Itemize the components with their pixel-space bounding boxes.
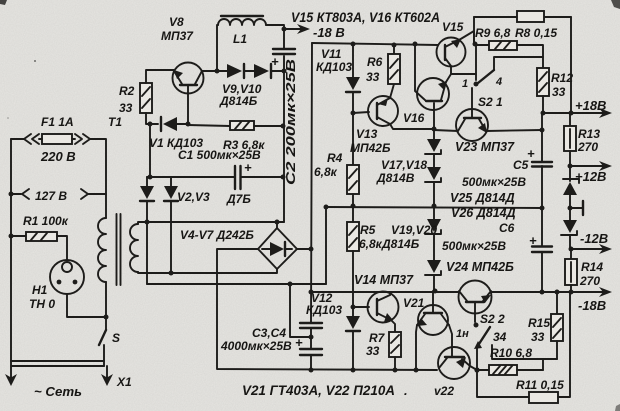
svg-text:+: + <box>529 233 537 248</box>
svg-text:L1: L1 <box>233 32 247 46</box>
svg-text:МП42Б: МП42Б <box>350 141 391 155</box>
capacitor C3 <box>300 322 322 324</box>
connector arrow < <box>22 189 29 199</box>
node: C1 right junction <box>281 175 286 180</box>
svg-text:С6: С6 <box>499 221 515 235</box>
wire: top wire y=17 <box>474 16 571 18</box>
svg-text:220 В: 220 В <box>40 149 76 164</box>
svg-text:R8 0,15: R8 0,15 <box>515 26 557 40</box>
svg-text:33: 33 <box>366 70 380 84</box>
node: rail/R9 junction <box>473 42 478 47</box>
svg-text:R6: R6 <box>367 55 383 69</box>
wire: right rail from top wire <box>570 17 572 113</box>
wire: contact 3 to R15 bottom <box>492 345 557 359</box>
wire: V14 collector to -18 wire <box>390 292 391 295</box>
svg-text:С5: С5 <box>513 158 529 172</box>
capacitor C5 <box>540 128 545 133</box>
wire: V2 rail bottom run <box>147 283 326 285</box>
transistor V14 MP37 <box>368 292 399 323</box>
zener V20 <box>427 260 441 273</box>
wire: bridge right vertex to raw rail <box>297 248 311 250</box>
svg-text:R4: R4 <box>327 151 343 165</box>
svg-text:-18 В: -18 В <box>313 25 345 40</box>
svg-text:R15: R15 <box>528 316 550 330</box>
svg-text:R9 6,8: R9 6,8 <box>475 26 511 40</box>
lamp H1 TN (neon) <box>50 260 84 294</box>
svg-text:R7: R7 <box>369 331 386 345</box>
switch S2.2 <box>474 323 479 328</box>
resistor R15 33 <box>556 292 558 314</box>
zener V18 <box>427 167 441 180</box>
svg-text:v22: v22 <box>434 384 454 398</box>
capacitor C1 500mk <box>234 166 236 189</box>
connector arrows (right of F1) <box>75 134 90 144</box>
svg-text:500мк×25В: 500мк×25В <box>442 239 506 253</box>
svg-text:R10 6,8: R10 6,8 <box>490 346 532 360</box>
svg-text:Х1: Х1 <box>116 375 132 389</box>
resistor R1 100k <box>11 235 26 237</box>
svg-text:F1 1А: F1 1А <box>41 115 74 129</box>
zener V17 <box>433 130 435 139</box>
transformer primary winding <box>98 218 106 282</box>
svg-text:V17,V18: V17,V18 <box>381 158 427 172</box>
node: C3/C4 midpoint <box>309 335 314 340</box>
wire: V23 collector to zener rail <box>434 130 458 131</box>
fuse F1 <box>42 134 72 144</box>
switch S <box>105 282 107 330</box>
resistor R4 6.8k <box>347 165 359 194</box>
diode V10 <box>254 64 269 78</box>
zener V19 <box>427 219 441 232</box>
wire: R11 to -18V node <box>558 294 570 397</box>
wire: V13 emitter to R6 <box>390 84 394 98</box>
svg-text:V15: V15 <box>442 20 464 34</box>
transistor V22 P210A <box>438 347 470 379</box>
wire: R3 to C2 rail <box>254 125 283 127</box>
resistor R2 33 <box>140 83 152 113</box>
svg-text:V4-V7 Д242Б: V4-V7 Д242Б <box>180 228 254 242</box>
wire: bottom double mains wires <box>12 360 104 362</box>
svg-text:V21 ГТ403А, V22 П210А: V21 ГТ403А, V22 П210А <box>242 383 395 398</box>
wire: mid reference wire y=206 <box>326 207 542 208</box>
svg-text:ТН 0: ТН 0 <box>29 297 55 311</box>
svg-text:R5: R5 <box>360 223 376 237</box>
wire: secondary top to bridge <box>138 222 284 224</box>
diode V12 KD103 <box>346 316 360 329</box>
svg-text:V8: V8 <box>169 15 184 29</box>
svg-text:V25 Д814Д: V25 Д814Д <box>450 191 515 205</box>
svg-text:Д7Б: Д7Б <box>226 192 251 206</box>
node: L1 left leg <box>215 69 220 74</box>
output arrow -18V (top) <box>284 28 303 30</box>
wire: V8 base to R3 <box>188 125 230 126</box>
wire: left rail <box>10 139 12 361</box>
svg-text:270: 270 <box>579 274 600 288</box>
node: +12V <box>568 164 573 169</box>
wire: +18V bus <box>543 112 604 114</box>
node: V16/V17/V23 junction <box>432 127 437 132</box>
wire: V23 emitter to C5 rail <box>486 130 542 131</box>
wire: short rail x=326 <box>325 207 327 284</box>
transistor V8 MP37 <box>173 63 204 94</box>
wire: fuse to transformer <box>90 139 106 218</box>
inductor L1 <box>221 15 263 17</box>
svg-text:4000мк×25В: 4000мк×25В <box>220 339 292 353</box>
svg-text:Д814Б: Д814Б <box>219 94 258 108</box>
wire: bridge left vertex to bottom bus <box>217 249 437 370</box>
svg-text:Д814Б: Д814Б <box>381 237 420 251</box>
svg-text:S: S <box>112 331 120 345</box>
wire: V21 collector to V22 <box>449 325 452 356</box>
wire: lamp bottom to primary rail <box>67 294 106 317</box>
connector arrow > <box>81 189 88 199</box>
diode V2 <box>146 177 148 186</box>
svg-text:1: 1 <box>462 78 468 90</box>
svg-text:+: + <box>271 54 279 69</box>
wire: top horizontal bus y=44 <box>312 43 438 45</box>
svg-text:МП37: МП37 <box>161 29 194 43</box>
resistor R14 270 <box>570 249 572 259</box>
node: V2 top rail crossing <box>145 220 150 225</box>
switch S2.1 <box>475 44 477 80</box>
output arrow -12V <box>571 248 604 250</box>
svg-text:R1 100к: R1 100к <box>23 214 69 228</box>
wire: V15 collector down <box>451 66 476 74</box>
svg-text:-12В: -12В <box>580 231 608 246</box>
node: R3/C2 rail <box>281 124 286 129</box>
node: V22 collector junction <box>474 367 479 372</box>
node: -12V <box>569 247 574 252</box>
svg-text:V23 МП37: V23 МП37 <box>455 140 515 154</box>
resistor R7 33 <box>389 332 401 357</box>
wire: R9 to R12 <box>517 45 543 68</box>
resistor R13 270 <box>569 113 571 126</box>
wire: V16 emitter up to V15 <box>446 74 451 82</box>
wire: fuse top wire <box>11 138 24 140</box>
svg-text:С2 200мк×25В: С2 200мк×25В <box>283 59 298 185</box>
capacitor C4 <box>300 348 322 350</box>
node: R1 on left rail <box>9 234 14 239</box>
svg-text:1н: 1н <box>456 328 469 340</box>
svg-text:34: 34 <box>493 330 507 344</box>
transformer secondary winding <box>130 224 138 272</box>
svg-text:V21: V21 <box>403 296 425 310</box>
diode V11 KD103 <box>351 42 356 47</box>
transistor V15 KT803A <box>437 38 466 67</box>
wire: R4 bottom to mid wire <box>352 194 354 206</box>
svg-text:R11 0,15: R11 0,15 <box>516 378 564 392</box>
transistor V16 KT602A <box>417 78 449 110</box>
node: raw rail / bridge <box>309 247 314 252</box>
svg-text:Т1: Т1 <box>108 115 122 129</box>
output arrow +12V <box>570 165 604 167</box>
transformer core <box>116 214 118 285</box>
node: 127V tap on left rail <box>9 192 14 197</box>
terminal X1 arrows <box>10 361 12 378</box>
svg-text:33: 33 <box>366 344 380 358</box>
diode V1 KD103 <box>163 117 177 131</box>
wire: V1 junction down to C1 <box>149 124 151 177</box>
wire: V16 base drop <box>413 42 418 47</box>
svg-text:33: 33 <box>119 101 133 115</box>
transistor V21 GT403A <box>418 305 448 335</box>
node: V11 bottom / V13 base <box>351 111 356 116</box>
node: lamp/primary junction <box>104 315 109 320</box>
svg-text:V2,V3: V2,V3 <box>177 190 210 204</box>
svg-text:Н1: Н1 <box>32 283 48 297</box>
svg-text:V15 КТ803А, V16 КТ602А: V15 КТ803А, V16 КТ602А <box>291 10 440 25</box>
wire: V15 emitter to top wire <box>459 31 474 44</box>
svg-text:6,8к: 6,8к <box>314 165 338 179</box>
svg-text:127 В: 127 В <box>35 189 67 203</box>
diode V9 <box>227 64 242 78</box>
node: bridge top vertex on AC wire <box>275 220 280 225</box>
svg-text:R13: R13 <box>578 127 600 141</box>
wire: C1 wire <box>147 176 234 178</box>
svg-text:С1 500мк×25В: С1 500мк×25В <box>178 148 261 162</box>
wire: 127V tap to primary <box>88 193 106 195</box>
svg-text:33: 33 <box>552 85 566 99</box>
wire: V14 emitter to R7 <box>391 320 395 332</box>
svg-text:V26 Д814Д: V26 Д814Д <box>451 206 516 220</box>
node: 0V midpoint <box>568 206 573 211</box>
zener V25 D814D <box>569 166 571 181</box>
node: R2/V1/C1 junction <box>148 122 153 127</box>
wire: R5 bottom to V14 base <box>352 251 354 316</box>
svg-text:КД103: КД103 <box>306 303 342 317</box>
svg-text:С3,С4: С3,С4 <box>252 326 286 340</box>
wire: C2 rail <box>283 56 285 222</box>
svg-text:+: + <box>295 335 303 350</box>
resistor R5 6.8k <box>347 222 359 251</box>
svg-text:R14: R14 <box>581 260 603 274</box>
svg-text:V14 МП37: V14 МП37 <box>354 273 414 287</box>
scan corner marks <box>0 0 7 5</box>
wire: main raw negative rail x=311 <box>311 43 312 322</box>
svg-text:V19,V20: V19,V20 <box>391 223 437 237</box>
svg-text:V13: V13 <box>356 127 378 141</box>
wire: 127V tap stub left <box>11 193 21 195</box>
wire: V22 collector down to R11 <box>477 370 529 397</box>
svg-text:4: 4 <box>495 76 502 88</box>
svg-text:S2 1: S2 1 <box>478 95 503 109</box>
svg-text:.: . <box>404 383 408 398</box>
svg-text:-18В: -18В <box>578 298 606 313</box>
resistor R11 0.15 <box>529 392 558 403</box>
svg-text:V24 МП42Б: V24 МП42Б <box>446 260 514 274</box>
svg-text:R2: R2 <box>119 84 135 98</box>
capacitor C6 <box>532 245 552 247</box>
node: V8 base <box>186 122 191 127</box>
node: C3/C4 midpoint branch <box>288 282 293 287</box>
resistor R10 6.8 <box>477 369 489 371</box>
node: C2 rail top <box>282 69 287 74</box>
wire: V8 collector to L1 junction <box>202 70 227 72</box>
resistor R12 33 <box>537 68 549 96</box>
resistor R3 6.8k <box>230 121 254 130</box>
wire: R2 top to V8 emitter <box>146 70 174 83</box>
zener V26 D814D <box>563 220 577 233</box>
resistor R8 0.15 <box>517 11 544 22</box>
wire: V13 collector to R4 rail <box>390 124 434 129</box>
svg-text:S2 2: S2 2 <box>480 312 505 326</box>
diode V3 <box>170 177 172 186</box>
svg-text:+18В: +18В <box>575 98 606 113</box>
svg-text:R12: R12 <box>551 71 573 85</box>
svg-text:270: 270 <box>577 140 598 154</box>
capacitor C2 (plates) <box>273 48 295 50</box>
transistor V23 MP37 <box>456 109 488 141</box>
resistor R9 6.8 <box>476 44 489 46</box>
connector arrows (left of F1) <box>24 134 39 144</box>
node: zener midpoint on y=206 wire <box>432 204 437 209</box>
svg-text:+: + <box>244 160 252 175</box>
svg-text:~ Сеть: ~ Сеть <box>34 385 82 399</box>
wire: R1 to lamp <box>57 236 67 260</box>
svg-text:Д814В: Д814В <box>376 171 415 185</box>
wire: V21 emitter to bus <box>416 325 417 370</box>
wire: -18V bus <box>311 291 459 293</box>
svg-text:500мк×25В: 500мк×25В <box>462 175 526 189</box>
svg-text:V11: V11 <box>321 47 342 61</box>
svg-text:6,8к: 6,8к <box>359 237 383 251</box>
svg-text:КД103: КД103 <box>316 60 352 74</box>
svg-text:V16: V16 <box>403 111 425 125</box>
bridge rectifier V4-V7 D242B (diamond) <box>258 228 297 269</box>
transistor V13 MP42B <box>368 96 398 126</box>
resistor R6 33 <box>392 43 397 48</box>
wire: R2 bottom <box>146 113 158 124</box>
node: V14 base junction <box>351 305 356 310</box>
node: -18V corner <box>282 27 287 32</box>
wire: secondary bottom to bridge bottom vertex <box>138 269 277 273</box>
svg-text:33: 33 <box>531 330 545 344</box>
node: C4 bottom on bus <box>309 368 314 373</box>
common terminal bar <box>570 207 583 209</box>
